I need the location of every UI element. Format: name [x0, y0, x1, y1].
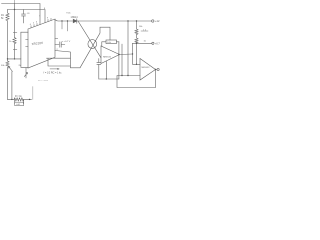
svg-text:fo = 1 kHz: fo = 1 kHz [38, 80, 48, 82]
node stub b [67, 20, 68, 21]
wire mid vertical lower [21, 66, 28, 68]
node loop j2 [121, 75, 122, 76]
resistor R1 on left rail [6, 10, 9, 62]
svg-text:R = 1k: R = 1k [15, 96, 23, 98]
terminal tap [152, 42, 154, 44]
node top right j1 [127, 20, 128, 21]
wire U2 bottom stub [105, 61, 107, 79]
wire below R2 [14, 44, 16, 59]
wiper arrow of R3 [9, 67, 13, 72]
resistor R8 chain [135, 35, 138, 65]
wire left branch [14, 4, 16, 38]
svg-text:5k: 5k [1, 18, 4, 20]
node bus junction [14, 9, 15, 10]
node left branch foot [14, 58, 15, 59]
svg-text:4: 4 [30, 24, 32, 26]
wire fb vertical [118, 42, 120, 79]
capacitor C1 [22, 10, 26, 24]
potentiometer R3 [6, 61, 9, 99]
label pointer 1k [141, 30, 148, 32]
svg-text:750k: 750k [66, 13, 72, 15]
wire top output line [55, 20, 73, 21]
svg-text:f = 1/2 RC = 1 kc: f = 1/2 RC = 1 kc [44, 71, 63, 74]
node tap junction [136, 43, 137, 44]
wire right long vertical [127, 21, 129, 76]
wire upper bus [2, 4, 41, 25]
node stub a [61, 20, 62, 21]
wire U3 feedback loop [117, 70, 156, 88]
wire bottom right vertical [32, 87, 34, 100]
svg-text:NE5532: NE5532 [142, 67, 151, 69]
svg-text:6: 6 [36, 22, 38, 24]
wire fb left [102, 42, 106, 46]
terminal output [157, 68, 159, 70]
svg-text:1k: 1k [9, 41, 12, 43]
wire to crossing [70, 66, 80, 68]
timing network box [47, 58, 71, 66]
wire U2 output [120, 53, 133, 56]
wire stub b [67, 21, 69, 31]
svg-text:9: 9 [47, 18, 49, 20]
node top right j2 [136, 20, 137, 21]
svg-text:8: 8 [44, 8, 46, 10]
wire stub a [61, 21, 63, 29]
node out j [132, 53, 133, 54]
resistor R10 bottom [14, 98, 24, 101]
svg-text:.01: .01 [27, 13, 31, 15]
wire top stub [14, 0, 16, 4]
pin stub ic right b [55, 51, 70, 59]
pin ticks on IC left edge [26, 39, 28, 46]
wire bottom left [8, 98, 32, 100]
svg-text:1k: 1k [144, 41, 147, 43]
node loop j1 [127, 75, 128, 76]
wire crossing diagonal B [80, 27, 110, 68]
node chain join [136, 64, 137, 65]
tbar lower [13, 49, 17, 51]
node fb out [118, 54, 119, 55]
svg-text:+12 V: +12 V [155, 19, 160, 23]
tbar upper [13, 32, 17, 34]
transistor Q1 [24, 68, 27, 78]
resistor R2 [13, 38, 16, 44]
pin stub ic right a [55, 38, 58, 40]
wire y59 to rail [8, 58, 21, 60]
svg-text:10k: 10k [139, 26, 143, 28]
svg-text:NE5532: NE5532 [103, 57, 112, 59]
svg-text:= +0.7 V: = +0.7 V [62, 41, 71, 43]
node rail y59 [7, 58, 8, 59]
terminal +12V [152, 20, 154, 22]
wire wiper down [11, 72, 13, 100]
wire tap [133, 42, 153, 44]
capacitor C5 bottom [15, 99, 24, 103]
pin ticks on IC top edge [31, 18, 51, 28]
svg-text:7: 7 [39, 16, 41, 18]
wire lower bus [8, 10, 46, 23]
node bottom stub [106, 78, 107, 79]
node U3 out [155, 69, 156, 70]
svg-text:R1: R1 [1, 15, 5, 17]
svg-text:50k: 50k [1, 65, 5, 67]
wire after diode [77, 20, 152, 22]
wire pin4 lead [21, 31, 28, 33]
svg-text:+0.7: +0.7 [155, 42, 160, 45]
wire U3 output [156, 69, 158, 71]
wire mid vertical [20, 32, 22, 67]
feedback resistor box R9 [106, 40, 117, 44]
diode D1 [73, 19, 77, 23]
resistor R7 chain top [135, 21, 138, 35]
capacitor C5 box [15, 102, 24, 105]
annotation arrow fo [50, 68, 59, 69]
multiplier circle [88, 40, 97, 49]
wire fb right [117, 41, 119, 43]
svg-text:1N914: 1N914 [71, 16, 79, 19]
wire out down [133, 43, 141, 64]
wire crossing diagonal A [78, 21, 101, 58]
node bottom j2 [29, 99, 30, 100]
op-amp U3 [140, 59, 156, 81]
svg-text:2k: 2k [19, 65, 22, 67]
node bottom j1 [11, 99, 12, 100]
capacitor C4 under U2 [97, 59, 101, 79]
op-amp U2 [101, 46, 120, 64]
svg-text:5: 5 [33, 23, 35, 25]
wire under loop [99, 78, 119, 80]
IC U1 XR2206 body [28, 19, 55, 68]
svg-text:XR2206: XR2206 [31, 41, 43, 46]
capacitor C3 on IC right [55, 42, 65, 47]
wire left mid vertical [121, 44, 123, 76]
